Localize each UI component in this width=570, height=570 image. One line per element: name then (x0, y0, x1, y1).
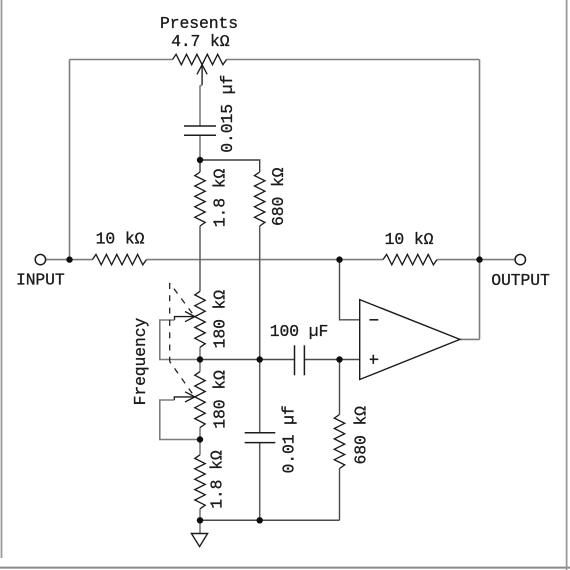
svg-text:10 kΩ: 10 kΩ (96, 230, 145, 249)
wire: plus line left of 100uF (200, 359, 295, 361)
ganged-control dashed vertical link (169, 283, 171, 362)
svg-text:INPUT: INPUT (16, 271, 65, 290)
wire: plus line right of 100uF (304, 359, 359, 361)
potentiometer P1 4.7 kohm Presents body (173, 54, 227, 64)
page border right (566, 0, 568, 570)
wire: pot2 wiper lead (dark) (174, 397, 194, 400)
P3 wiper arrowhead (185, 392, 195, 397)
wire: input stub to first junction (46, 259, 93, 261)
wire: pot2 to lower junction (199, 428, 201, 455)
wire: pot1 wiper bracket (160, 320, 200, 360)
capacitor C3 0.01 uf (245, 432, 276, 434)
resistor R3 1.8 kohm (upper) (195, 172, 205, 226)
junction: ground node 0.01uf (257, 517, 263, 523)
svg-text:10 kΩ: 10 kΩ (385, 230, 434, 249)
potentiometer P2 180 kohm (upper Frequency gang) body (195, 291, 205, 347)
junction: node pot1/pot2 (197, 356, 203, 362)
wire: 4.7k pot wiper shaft (dark) (201, 66, 203, 86)
capacitor C2 100 uF (294, 345, 296, 375)
P2 wiper arrowhead (185, 312, 195, 317)
wire: 680k/0.01uf column upper (259, 360, 261, 433)
wire: op-amp output lead (460, 338, 480, 340)
wire: top feedback left segment (70, 59, 173, 61)
junction: node 680k/0.01uf on plus line (257, 356, 263, 362)
OUTPUT terminal circle (515, 254, 525, 264)
svg-text:180 kΩ: 180 kΩ (211, 290, 230, 349)
P2 dashed wiper shaft (170, 283, 193, 313)
junction: plus input node (336, 356, 342, 362)
op-amp U1 triangle (360, 300, 460, 380)
junction: node C1/R3/R4 (197, 157, 203, 163)
svg-text:4.7 kΩ: 4.7 kΩ (171, 32, 230, 51)
page border left (1, 0, 3, 558)
op-amp inverting pin mark (370, 319, 379, 321)
wire: pot1 wiper lead (dark) (175, 317, 195, 320)
wire: 4.7k wiper jog down to C1 (200, 85, 202, 126)
wire: second 10k to output terminal (437, 259, 516, 261)
wire: 680k bottom to ground rail (339, 469, 341, 521)
P1 wiper arrowhead (197, 65, 202, 75)
junction: node pot2/R5 (197, 436, 203, 442)
wire: pot2 wiper bracket (160, 400, 200, 440)
wire: 0.015uf cap to junction node (199, 135, 201, 160)
junction: node at inverting branch (336, 256, 342, 262)
wire: right feedback vertical (479, 60, 481, 340)
wire: 1.8k bottom to ground junction (199, 509, 201, 520)
wire: pot1 to pot2 junction (199, 347, 201, 371)
svg-text:180 kΩ: 180 kΩ (211, 370, 230, 429)
wire: 1.8k top to 180k pot1 (crosses main line) (199, 226, 201, 291)
page border bottom (0, 567, 570, 569)
svg-text:Frequency: Frequency (131, 318, 150, 406)
wire: ground rail (200, 519, 340, 521)
wire: left feedback vertical (69, 60, 71, 260)
svg-text:1.8 kΩ: 1.8 kΩ (211, 169, 230, 228)
wire: inverting input branch (340, 260, 360, 320)
svg-text:Presents: Presents (160, 14, 238, 33)
ground symbol (191, 534, 207, 547)
svg-text:680 kΩ: 680 kΩ (269, 167, 288, 226)
op-amp non-inverting pin mark (370, 358, 379, 360)
resistor R1 10 kohm (input) (92, 254, 146, 264)
svg-text:680 kΩ: 680 kΩ (352, 406, 371, 465)
capacitor C1 0.015 uf (184, 125, 216, 127)
junction: input node (66, 256, 72, 262)
resistor R4 680 kohm (upper) (255, 172, 265, 226)
wire: main line between 10k resistors (146, 259, 383, 261)
INPUT terminal circle (35, 254, 45, 264)
svg-text:0.015 µf: 0.015 µf (218, 75, 237, 153)
resistor R6 680 kohm (lower) (334, 415, 344, 469)
resistor R5 1.8 kohm (lower) (195, 455, 205, 509)
junction: ground node left (197, 517, 203, 523)
svg-text:OUTPUT: OUTPUT (491, 271, 550, 290)
resistor R2 10 kohm (output) (383, 254, 437, 264)
wire: 0.01uf to ground rail (259, 443, 261, 521)
wire: ground stub (199, 520, 201, 533)
junction: output node (476, 256, 482, 262)
svg-text:1.8 kΩ: 1.8 kΩ (208, 450, 227, 509)
wire: 680k top down to plus line (crosses main line) (259, 226, 261, 360)
P3 dashed wiper shaft (170, 362, 193, 394)
svg-text:100 µF: 100 µF (270, 322, 328, 341)
svg-text:0.01 µf: 0.01 µf (280, 405, 299, 473)
wire: node junction to 680k top branch (200, 160, 260, 172)
potentiometer P3 180 kohm (lower Frequency gang) body (195, 372, 205, 428)
wire: top feedback right segment (227, 59, 480, 61)
wire: plus node down to 680k bottom (339, 360, 341, 415)
